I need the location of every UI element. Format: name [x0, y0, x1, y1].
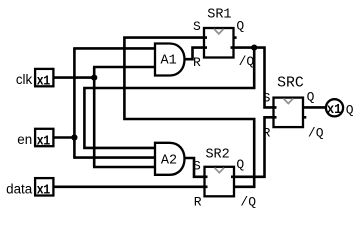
svg-text:R: R: [194, 195, 202, 210]
wire clk to A1 input 2: [93, 66, 155, 69]
wire en to A1 input 1: [73, 47, 155, 50]
svg-text:Q: Q: [346, 102, 354, 117]
svg-text:Q: Q: [236, 19, 244, 34]
svg-text:x1: x1: [327, 101, 342, 117]
node SR1 /Q junction: [251, 45, 257, 51]
svg-text:SR2: SR2: [205, 147, 229, 162]
wire clk to A2 input 3: [93, 166, 155, 169]
notch SR1: [214, 29, 224, 34]
svg-text:A2: A2: [161, 154, 177, 169]
svg-text:SR1: SR1: [207, 7, 231, 22]
wire SR2 /Q to SR1 S (feedback loop): [124, 38, 254, 187]
svg-text:x1: x1: [37, 182, 51, 198]
svg-text:/Q: /Q: [240, 195, 256, 210]
wire clk box to junction: [54, 76, 94, 79]
wire SR1 /Q to SRC S: [231, 48, 277, 108]
pin stub SR1 Q: [234, 36, 237, 39]
node clk junction: [91, 75, 97, 81]
latch SR1 (box): [204, 28, 234, 58]
svg-text:A1: A1: [161, 54, 177, 69]
svg-text:Q: Q: [307, 90, 315, 105]
wire en vertical trunk: [73, 48, 76, 157]
pin stub SRC /Q: [303, 116, 306, 119]
input port data (box): [35, 178, 53, 198]
output port Q (circle): [326, 99, 343, 117]
svg-text:S: S: [263, 90, 271, 105]
svg-text:SRC: SRC: [277, 76, 304, 92]
wire SR2 Q to SRC R: [231, 117, 277, 177]
wire data to SR2 R: [54, 186, 207, 189]
notch SRC: [284, 99, 294, 104]
svg-text:data: data: [6, 182, 33, 197]
node en junction: [71, 134, 77, 140]
svg-text:R: R: [263, 125, 271, 140]
wire SR1 /Q feedback to A2 input 1: [84, 46, 254, 147]
AND gate A1: [155, 44, 185, 76]
svg-text:S: S: [193, 19, 201, 34]
wire en box to junction: [54, 136, 74, 139]
svg-text:x1: x1: [37, 132, 51, 148]
notch SR2: [215, 168, 225, 173]
input port en (box): [35, 129, 53, 149]
wire A1 output to SR1 R (jog): [184, 48, 207, 60]
svg-text:clk: clk: [16, 72, 33, 87]
wire A2 output to SR2 S (jog): [184, 158, 208, 177]
svg-text:/Q: /Q: [239, 54, 255, 69]
wire SRC Q to output port: [303, 106, 325, 109]
AND gate A2: [155, 143, 185, 175]
svg-text:en: en: [17, 132, 32, 147]
latch SRC (box): [274, 98, 304, 128]
svg-text:S: S: [193, 158, 201, 173]
wire en to A2 input 2: [73, 156, 155, 159]
svg-text:R: R: [193, 55, 201, 70]
svg-text:Q: Q: [236, 157, 244, 172]
svg-text:/Q: /Q: [308, 125, 324, 140]
input port clk (box): [35, 69, 53, 89]
wire clk vertical trunk: [93, 67, 96, 167]
latch SR2 (box): [205, 167, 235, 197]
svg-text:x1: x1: [37, 73, 51, 89]
